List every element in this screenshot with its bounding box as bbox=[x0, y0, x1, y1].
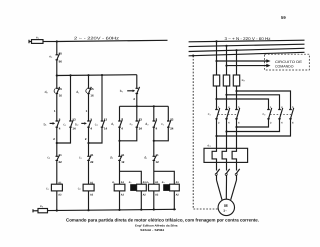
wire parallel seal c&#8321; branch bbox=[70, 75, 72, 121]
heater element 1 bbox=[212, 148, 216, 162]
wire parallel bracket to merge bbox=[57, 127, 71, 143]
svg-text:12: 12 bbox=[121, 160, 125, 164]
timer coil d&#8322; black part bbox=[130, 184, 136, 191]
node bottom rail bbox=[87, 209, 89, 211]
fuse e2 bbox=[38, 209, 48, 213]
wire col to NC contact bbox=[88, 127, 90, 156]
svg-text:2 ~ - 220V - 60Hz: 2 ~ - 220V - 60Hz bbox=[74, 36, 119, 41]
node c2 return phase2 bbox=[225, 130, 227, 132]
svg-text:d₂: d₂ bbox=[129, 181, 132, 184]
wire parallel bracket to merge bbox=[120, 127, 137, 141]
node bottom rail timer bbox=[173, 208, 175, 210]
fuse e1 bbox=[32, 40, 44, 44]
node bottom rail bbox=[56, 209, 58, 211]
contact e4 95-96 (NC) bbox=[56, 53, 60, 59]
svg-text:3 ~ + N - 220 V - 60 Hz: 3 ~ + N - 220 V - 60 Hz bbox=[225, 36, 271, 41]
fuse e3 pole 1 bbox=[213, 75, 219, 86]
contactor c2 pole 1 bbox=[267, 108, 272, 119]
wire sub-bus down main bbox=[153, 106, 155, 121]
svg-text:Engº Edilson Alfredo da Silva: Engº Edilson Alfredo da Silva bbox=[135, 224, 178, 228]
svg-text:COMANDO: COMANDO bbox=[275, 65, 294, 69]
contactor c2 pole 2 bbox=[278, 108, 283, 119]
wire phase drop 1 bbox=[216, 41, 218, 75]
contact d&#8321; 11-12 (NC) bbox=[153, 155, 157, 160]
svg-text:13: 13 bbox=[72, 118, 76, 122]
node merge bbox=[56, 142, 58, 144]
wire sub-bus down main bbox=[119, 106, 121, 121]
wire to coil bbox=[56, 160, 58, 184]
motor terminal 3 bbox=[236, 169, 240, 174]
overload relay e4 box bbox=[204, 148, 248, 162]
wire control bus bbox=[57, 74, 137, 77]
wire rail L3 bbox=[189, 48, 305, 51]
b&#8322; actuator arrow bbox=[81, 122, 85, 124]
svg-text:21: 21 bbox=[59, 153, 63, 157]
node rail-col1 bbox=[56, 40, 58, 42]
wire coil to bottom rail bbox=[88, 191, 90, 210]
node bottom rail bbox=[118, 209, 120, 211]
contact c&#8321; 21-22 (NC) bbox=[87, 155, 91, 160]
wire control top rail bbox=[57, 40, 168, 41]
wire bottom rail bbox=[48, 209, 176, 210]
svg-text:16: 16 bbox=[59, 93, 63, 97]
heater element 2 bbox=[222, 148, 226, 162]
b0 actuator arrow bbox=[127, 90, 133, 92]
svg-text:15: 15 bbox=[90, 87, 94, 91]
wire col1 upper drop bbox=[56, 42, 58, 55]
node L1 drop bbox=[215, 40, 217, 42]
timer coil d&#8324; black part bbox=[163, 184, 169, 191]
wire c2 return middle to phase2 bbox=[227, 119, 280, 132]
coil d&#8323; bbox=[149, 184, 160, 191]
arrow to circuito de comando top bbox=[217, 60, 268, 62]
timer coil d&#8324; white part bbox=[170, 184, 180, 191]
motor M 3~ circle bbox=[218, 199, 234, 215]
arrow to circuito de comando bottom bbox=[227, 65, 268, 67]
wire parallel bracket to merge bbox=[154, 127, 169, 141]
timer coil d&#8322; white part bbox=[137, 184, 147, 191]
contact d&#8322; 11-12 (NC) bbox=[118, 155, 122, 160]
coil c&#8321; bbox=[51, 184, 62, 191]
wire dashed N drop to motor bbox=[193, 56, 218, 209]
c1 pole linkage dashes bbox=[218, 113, 237, 115]
wire to coil bbox=[153, 160, 155, 184]
wire c2 top feed middle bbox=[227, 95, 280, 110]
node sub-bus b0/par3 bbox=[136, 105, 138, 107]
wire b0 to sub-bus bbox=[136, 94, 138, 107]
wire c2 top feed outer bbox=[237, 91, 291, 110]
terminal + lead to fuse e1 bbox=[29, 40, 32, 43]
contact c&#8322; 13-14 (NO) bbox=[101, 120, 105, 128]
svg-text:SENAI - SP/84: SENAI - SP/84 bbox=[140, 228, 165, 232]
svg-text:96: 96 bbox=[59, 60, 63, 64]
svg-text:59: 59 bbox=[281, 15, 286, 20]
wire c2 return outer to phase1 bbox=[217, 119, 291, 136]
node bus col1 bbox=[56, 74, 58, 76]
wire to coil bbox=[88, 160, 90, 184]
svg-text:21: 21 bbox=[90, 153, 94, 157]
node L3 drop bbox=[235, 49, 237, 51]
wire parallel drop bbox=[167, 106, 169, 121]
fuse e3 pole 3 bbox=[233, 75, 239, 86]
wire coil to bottom rail bbox=[119, 191, 121, 210]
contact d&#8322; (NO 3-4) bbox=[153, 120, 157, 128]
wire to coil bbox=[119, 160, 121, 184]
wire rail L2 bbox=[189, 44, 305, 46]
wire timer to bottom rail bbox=[173, 191, 175, 209]
svg-text:13: 13 bbox=[104, 118, 108, 122]
wire parallel bracket to merge bbox=[89, 127, 103, 143]
node c2 return phase3 bbox=[235, 126, 237, 128]
svg-text:23: 23 bbox=[139, 118, 143, 122]
node merge bbox=[118, 140, 120, 142]
wire fuse outputs to c1 bbox=[217, 86, 237, 110]
coil c&#8322; bbox=[83, 184, 94, 191]
svg-text:24: 24 bbox=[139, 127, 143, 131]
wire fuse e1 to rail bbox=[43, 41, 57, 43]
svg-text:16: 16 bbox=[90, 93, 94, 97]
wire col mid bbox=[56, 94, 58, 122]
contact c&#8321; 13-14 (NO) bbox=[69, 120, 73, 128]
wire parallel seal c&#8322; branch bbox=[101, 75, 103, 121]
wire col mid bbox=[88, 94, 90, 122]
wire c1 outputs down bbox=[217, 119, 237, 149]
wire split feed to timer coil bbox=[120, 171, 142, 184]
node comando tap 1 bbox=[215, 60, 217, 62]
node sub-bus col4 bbox=[153, 105, 155, 107]
wire b0 branch corner bbox=[136, 75, 138, 89]
contact d&#8322; 15-16 (NC) bbox=[56, 87, 60, 94]
motor terminal 2 bbox=[226, 169, 230, 174]
wire overload outputs bbox=[217, 162, 237, 170]
svg-text:CIRCUITO DE: CIRCUITO DE bbox=[275, 60, 303, 64]
svg-text:14: 14 bbox=[104, 127, 108, 131]
wire col1 bus to d contact bbox=[56, 76, 58, 89]
contact c&#8321; (NO 23-24) bbox=[167, 120, 171, 128]
wire sub-bus bbox=[120, 105, 169, 107]
wire main to NC contact bbox=[119, 127, 121, 156]
wire timer to bottom rail bbox=[140, 191, 142, 210]
node N tap bbox=[192, 55, 194, 57]
svg-text:d₁: d₁ bbox=[112, 181, 115, 184]
node comando tap 2 bbox=[225, 65, 227, 67]
node L2 drop bbox=[225, 45, 227, 47]
wire split feed to timer coil bbox=[154, 171, 175, 184]
contactor c1 pole 1 bbox=[215, 108, 220, 119]
svg-text:Comando para partida direta de: Comando para partida direta de motor elé… bbox=[66, 217, 259, 222]
svg-text:14: 14 bbox=[72, 127, 76, 131]
node c2 tap phase3 bbox=[235, 90, 237, 92]
node bottom rail timer bbox=[140, 209, 142, 211]
wire parallel drop bbox=[136, 106, 138, 121]
svg-text:15: 15 bbox=[59, 87, 63, 91]
node bus col2 bbox=[87, 74, 89, 76]
c2 pole linkage dashes bbox=[270, 113, 291, 115]
wire e4 to bus bbox=[56, 60, 58, 76]
contact d&#8321; 15-16 (NC) bbox=[87, 87, 91, 94]
svg-text:95: 95 bbox=[59, 51, 63, 55]
dashed box circuito de comando bbox=[265, 54, 310, 70]
node bottom rail bbox=[153, 208, 155, 210]
node c2 tap phase1 bbox=[215, 98, 217, 100]
contactor c1 pole 2 bbox=[225, 108, 230, 119]
contact c&#8322; 21-22 (NC) bbox=[56, 155, 60, 160]
wires converge to motor bbox=[217, 180, 237, 200]
wire main to NC contact bbox=[153, 127, 155, 156]
pushbutton b&#8322; (NO 3-4) bbox=[87, 120, 91, 128]
svg-text:12: 12 bbox=[156, 160, 160, 164]
svg-text:11: 11 bbox=[156, 153, 159, 157]
svg-text:22: 22 bbox=[90, 160, 94, 164]
heater element 3 bbox=[232, 148, 236, 162]
fuse e3 pole 2 bbox=[223, 75, 229, 86]
contact d&#8321; (NO 3-4) bbox=[118, 120, 122, 128]
node c2 return phase1 bbox=[215, 135, 217, 137]
wire terminal tails bbox=[217, 175, 237, 180]
node merge bbox=[87, 142, 89, 144]
node bus par2 bbox=[101, 74, 103, 76]
contactor c1 pole 3 bbox=[235, 108, 240, 119]
coil d&#8321; bbox=[114, 184, 125, 191]
node merge bbox=[153, 140, 155, 142]
terminal + lead to fuse e2 bbox=[33, 209, 38, 212]
svg-text:3~: 3~ bbox=[223, 209, 227, 213]
wire phase drop 3 bbox=[236, 50, 238, 75]
contact c&#8322; (NO 23-24) bbox=[136, 120, 140, 128]
b&#8321; actuator arrow bbox=[50, 122, 54, 124]
wire c2 return inner to phase3 bbox=[237, 119, 269, 127]
wire coil to bottom rail bbox=[153, 191, 155, 210]
motor terminal 1 bbox=[216, 169, 220, 174]
node bus par1 bbox=[69, 74, 71, 76]
svg-text:23: 23 bbox=[170, 118, 174, 122]
svg-text:11: 11 bbox=[121, 153, 124, 157]
wire col2 bus to d contact bbox=[88, 75, 90, 88]
svg-text:22: 22 bbox=[59, 160, 63, 164]
wire col to NC contact bbox=[56, 127, 58, 156]
pushbutton b0 (NC 1-2) bbox=[136, 87, 140, 94]
pushbutton b&#8321; (NO 3-4) bbox=[56, 120, 60, 128]
wire c2 top feed inner bbox=[217, 99, 269, 110]
node c2 tap phase2 bbox=[225, 94, 227, 96]
contactor c2 pole 3 bbox=[289, 108, 294, 119]
svg-text:24: 24 bbox=[170, 127, 174, 131]
wire rail N bbox=[189, 52, 305, 56]
wire phase drop 2 bbox=[226, 46, 228, 75]
wire rail L1 bbox=[189, 40, 305, 42]
wire coil to bottom rail bbox=[56, 191, 58, 211]
